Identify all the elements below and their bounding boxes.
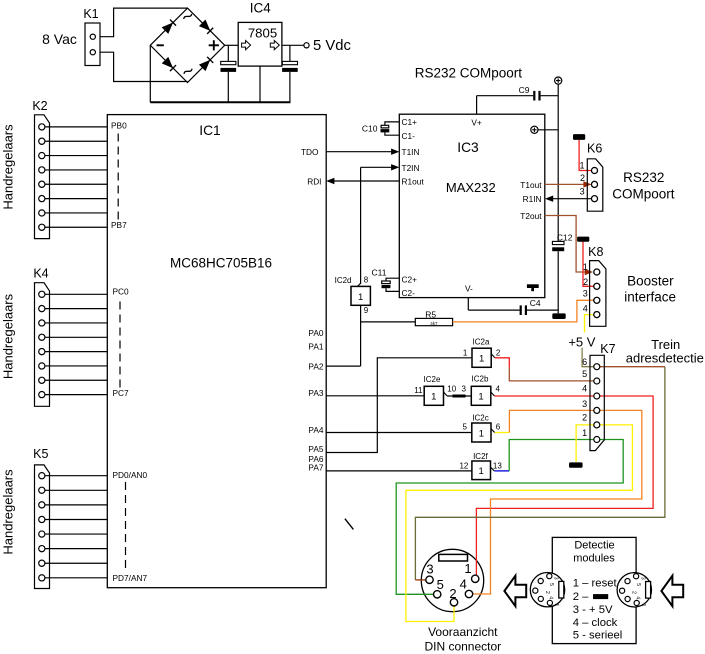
svg-text:5: 5 bbox=[582, 369, 587, 379]
svg-text:PA5: PA5 bbox=[308, 444, 323, 454]
svg-text:1 – reset: 1 – reset bbox=[573, 577, 618, 589]
svg-text:+5 V: +5 V bbox=[568, 334, 595, 349]
svg-text:Booster: Booster bbox=[627, 274, 674, 289]
svg-text:13: 13 bbox=[493, 461, 502, 470]
svg-text:K2: K2 bbox=[32, 99, 47, 113]
svg-text:K8: K8 bbox=[588, 245, 603, 259]
svg-text:C1-: C1- bbox=[402, 131, 416, 141]
svg-text:1: 1 bbox=[583, 262, 588, 272]
svg-text:Handregelaars: Handregelaars bbox=[1, 469, 16, 555]
svg-text:IC2f: IC2f bbox=[473, 452, 488, 461]
svg-text:modules: modules bbox=[573, 553, 615, 565]
svg-text:1: 1 bbox=[579, 161, 584, 171]
svg-text:3: 3 bbox=[583, 289, 588, 299]
svg-text:RS232: RS232 bbox=[623, 170, 664, 185]
svg-text:4: 4 bbox=[460, 577, 467, 592]
svg-text:V+: V+ bbox=[471, 118, 482, 128]
svg-text:T2IN: T2IN bbox=[402, 163, 420, 173]
svg-text:4: 4 bbox=[634, 596, 640, 599]
svg-text:PA2: PA2 bbox=[308, 361, 323, 371]
svg-text:adresdetectie: adresdetectie bbox=[626, 350, 704, 365]
svg-text:R1out: R1out bbox=[402, 177, 425, 187]
svg-text:5: 5 bbox=[635, 583, 641, 586]
svg-text:2: 2 bbox=[631, 591, 637, 594]
svg-text:K6: K6 bbox=[587, 142, 602, 156]
svg-text:R1IN: R1IN bbox=[523, 194, 542, 204]
svg-text:IC2e: IC2e bbox=[424, 375, 441, 384]
svg-text:6: 6 bbox=[582, 357, 587, 367]
svg-text:3: 3 bbox=[582, 399, 587, 409]
svg-text:MC68HC705B16: MC68HC705B16 bbox=[170, 256, 272, 271]
svg-text:TDO: TDO bbox=[301, 147, 319, 157]
svg-text:1: 1 bbox=[464, 561, 471, 576]
svg-text:C2+: C2+ bbox=[402, 274, 418, 284]
svg-text:1: 1 bbox=[431, 392, 436, 403]
svg-text:12: 12 bbox=[459, 461, 468, 470]
svg-text:2: 2 bbox=[582, 413, 587, 423]
svg-text:PA4: PA4 bbox=[308, 425, 323, 435]
svg-text:C1+: C1+ bbox=[402, 117, 418, 127]
svg-text:3: 3 bbox=[580, 187, 585, 197]
svg-text:T1out: T1out bbox=[520, 180, 542, 190]
svg-text:5: 5 bbox=[548, 583, 554, 586]
svg-text:MAX232: MAX232 bbox=[446, 180, 496, 195]
svg-text:8 Vac: 8 Vac bbox=[42, 31, 77, 47]
svg-text:PA0: PA0 bbox=[308, 328, 323, 338]
svg-text:1: 1 bbox=[479, 428, 484, 439]
svg-text:T2out: T2out bbox=[520, 211, 542, 221]
svg-text:IC2b: IC2b bbox=[472, 375, 489, 384]
svg-text:Detectie: Detectie bbox=[574, 540, 614, 552]
svg-text:4: 4 bbox=[582, 384, 587, 394]
svg-text:V-: V- bbox=[465, 284, 473, 294]
svg-text:C9: C9 bbox=[519, 85, 530, 95]
svg-text:3: 3 bbox=[640, 577, 646, 580]
svg-text:4: 4 bbox=[496, 385, 501, 394]
svg-text:IC2c: IC2c bbox=[472, 414, 488, 423]
svg-text:PA1: PA1 bbox=[308, 342, 323, 352]
svg-text:2: 2 bbox=[583, 277, 588, 287]
svg-text:2: 2 bbox=[544, 591, 550, 594]
svg-text:Vooraanzicht: Vooraanzicht bbox=[428, 625, 498, 639]
svg-text:7805: 7805 bbox=[248, 25, 277, 40]
svg-text:2: 2 bbox=[580, 173, 585, 183]
svg-text:3 - + 5V: 3 - + 5V bbox=[573, 604, 613, 616]
svg-text:PA3: PA3 bbox=[308, 388, 323, 398]
svg-text:C10: C10 bbox=[362, 123, 378, 133]
svg-text:5: 5 bbox=[463, 422, 468, 431]
svg-text:IC4: IC4 bbox=[250, 1, 272, 16]
svg-text:4k7: 4k7 bbox=[430, 321, 438, 326]
svg-text:IC3: IC3 bbox=[457, 140, 479, 155]
svg-text:IC2d: IC2d bbox=[335, 276, 352, 285]
svg-text:PB0: PB0 bbox=[111, 120, 127, 130]
svg-text:6: 6 bbox=[496, 422, 501, 431]
svg-text:PB7: PB7 bbox=[111, 220, 127, 230]
svg-text:5 Vdc: 5 Vdc bbox=[313, 38, 351, 54]
svg-text:1: 1 bbox=[479, 353, 484, 364]
svg-text:C4: C4 bbox=[530, 298, 541, 308]
svg-text:11: 11 bbox=[414, 386, 423, 395]
svg-text:9: 9 bbox=[364, 306, 369, 315]
svg-text:DIN connector: DIN connector bbox=[424, 639, 501, 653]
svg-text:Handregelaars: Handregelaars bbox=[1, 124, 16, 210]
svg-text:4 – clock: 4 – clock bbox=[573, 617, 618, 629]
svg-text:PD0/AN0: PD0/AN0 bbox=[113, 470, 148, 480]
svg-text:IC1: IC1 bbox=[199, 123, 220, 138]
svg-text:1: 1 bbox=[479, 466, 484, 477]
svg-text:8: 8 bbox=[364, 275, 369, 284]
svg-text:T1IN: T1IN bbox=[402, 147, 420, 157]
svg-text:IC2a: IC2a bbox=[473, 338, 490, 347]
svg-text:PD7/AN7: PD7/AN7 bbox=[113, 573, 148, 583]
svg-text:K7: K7 bbox=[600, 342, 615, 356]
svg-text:COMpoort: COMpoort bbox=[612, 186, 675, 201]
svg-text:5: 5 bbox=[437, 577, 444, 592]
svg-text:5 - serieel: 5 - serieel bbox=[573, 630, 623, 642]
svg-text:1: 1 bbox=[358, 292, 363, 303]
svg-text:Handregelaars: Handregelaars bbox=[1, 293, 16, 379]
svg-text:1: 1 bbox=[463, 349, 468, 358]
svg-text:2: 2 bbox=[449, 586, 456, 601]
svg-text:3: 3 bbox=[553, 577, 559, 580]
svg-text:K4: K4 bbox=[33, 266, 48, 280]
svg-text:3: 3 bbox=[426, 561, 433, 576]
svg-text:2: 2 bbox=[496, 349, 501, 358]
svg-text:RDI: RDI bbox=[307, 176, 321, 186]
svg-text:10: 10 bbox=[447, 385, 456, 394]
svg-text:1: 1 bbox=[640, 604, 646, 607]
svg-text:1: 1 bbox=[553, 604, 559, 607]
svg-text:4: 4 bbox=[548, 596, 554, 599]
svg-text:1: 1 bbox=[582, 428, 587, 438]
svg-text:PC0: PC0 bbox=[113, 286, 130, 296]
svg-text:K1: K1 bbox=[83, 7, 98, 21]
svg-text:C12: C12 bbox=[557, 232, 573, 242]
svg-text:interface: interface bbox=[624, 290, 676, 305]
svg-text:C11: C11 bbox=[372, 268, 387, 278]
svg-text:C2-: C2- bbox=[402, 288, 416, 298]
svg-text:PC7: PC7 bbox=[113, 388, 130, 398]
svg-text:PA7: PA7 bbox=[308, 462, 323, 472]
svg-text:1: 1 bbox=[478, 392, 483, 403]
svg-text:R5: R5 bbox=[425, 310, 436, 320]
svg-text:2 –: 2 – bbox=[573, 591, 589, 603]
svg-text:3: 3 bbox=[462, 385, 467, 394]
svg-text:K5: K5 bbox=[33, 447, 48, 461]
svg-text:4: 4 bbox=[583, 303, 588, 313]
svg-text:RS232 COMpoort: RS232 COMpoort bbox=[415, 66, 523, 81]
